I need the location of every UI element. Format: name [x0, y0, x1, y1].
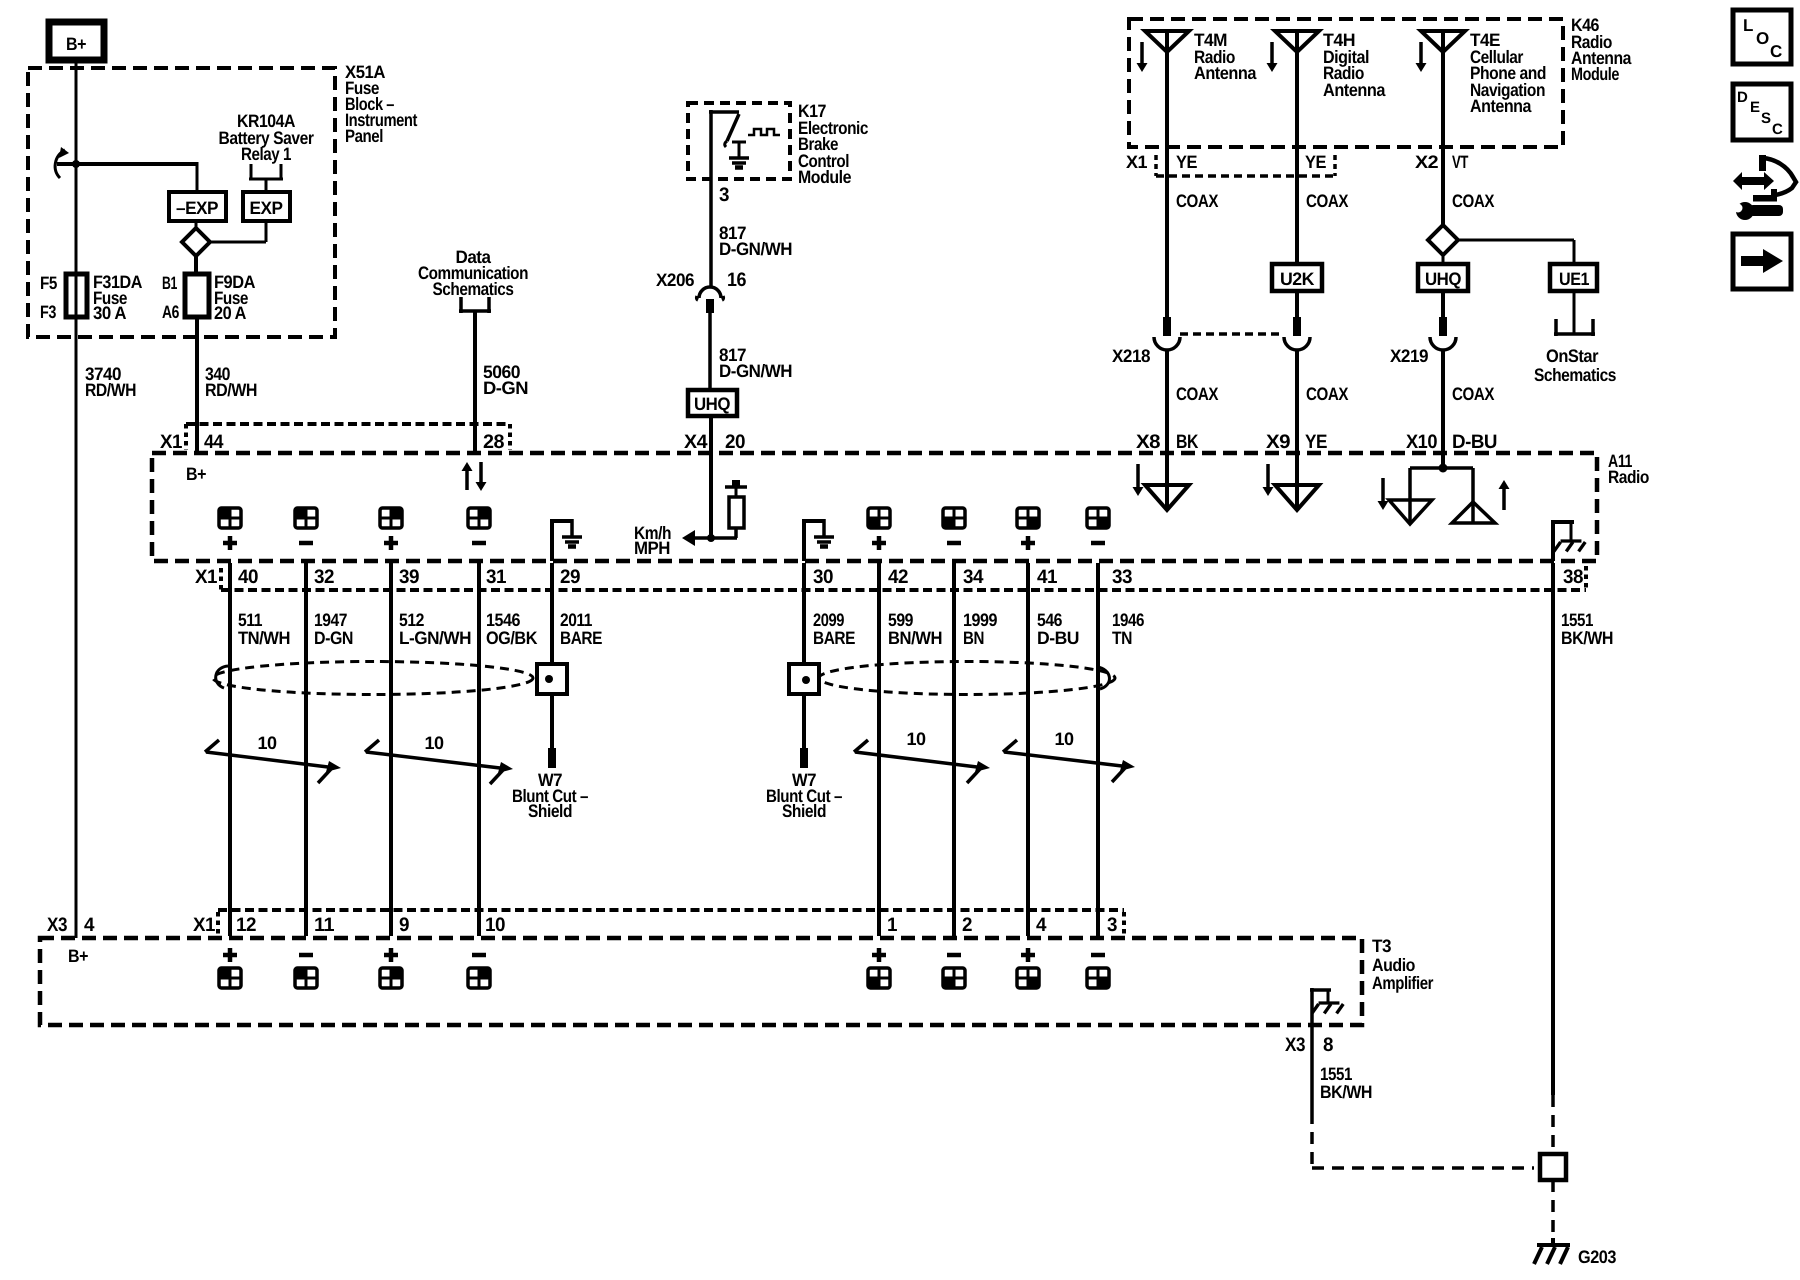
OnStar reference	[1573, 291, 1576, 334]
svg-text:X1: X1	[193, 914, 216, 936]
svg-text:COAX: COAX	[1452, 384, 1494, 404]
svg-text:OG/BK: OG/BK	[486, 628, 537, 648]
speaker symbol amp x=1028	[1017, 968, 1039, 988]
speaker symbol radio pin 1028	[1017, 508, 1039, 528]
svg-text:1999: 1999	[963, 610, 997, 630]
svg-text:COAX: COAX	[1306, 384, 1348, 404]
icon arrow box	[1733, 234, 1791, 289]
ground radio pin 30	[802, 521, 806, 561]
power feed B+ terminal	[49, 22, 104, 60]
svg-text:F5: F5	[40, 273, 57, 293]
svg-text:BK/WH: BK/WH	[1561, 628, 1613, 648]
K17 internal switch	[709, 110, 713, 179]
svg-text:X1: X1	[160, 431, 183, 453]
svg-text:10: 10	[257, 733, 277, 753]
wire branch to relay	[57, 162, 197, 166]
svg-text:D-BU: D-BU	[1452, 431, 1497, 453]
speaker symbol radio pin 1098	[1087, 508, 1109, 528]
twisted pair ellipse right	[819, 662, 1115, 695]
svg-text:44: 44	[204, 431, 224, 453]
svg-text:12: 12	[236, 914, 257, 936]
svg-text:4: 4	[1036, 914, 1047, 936]
amplifier T3 dashed box	[40, 938, 1362, 1025]
wire EXP to diamond	[265, 221, 268, 242]
K17 internal ground	[732, 141, 746, 144]
svg-text:32: 32	[314, 566, 335, 588]
icon LOC box	[1733, 10, 1791, 64]
wire speaker x=230	[228, 563, 232, 936]
wire 1551 radio side	[1551, 563, 1555, 1095]
option UHQ box 2	[1418, 264, 1468, 291]
splice box	[1540, 1154, 1566, 1180]
svg-text:Antenna: Antenna	[1470, 96, 1532, 116]
svg-text:COAX: COAX	[1452, 191, 1494, 211]
connector X219	[1442, 255, 1445, 264]
wire 817 upper	[709, 179, 713, 287]
svg-text:BARE: BARE	[560, 628, 602, 648]
svg-text:VT: VT	[1452, 152, 1468, 172]
svg-text:X1: X1	[1126, 152, 1147, 172]
ground G203	[1551, 1238, 1555, 1245]
svg-text:D: D	[1737, 89, 1748, 106]
svg-text:Audio: Audio	[1372, 955, 1415, 975]
svg-text:X3: X3	[47, 914, 68, 936]
svg-text:C: C	[1772, 121, 1783, 138]
wire speaker x=954	[952, 563, 956, 936]
svg-text:Schematics: Schematics	[433, 279, 514, 299]
svg-text:10: 10	[424, 733, 444, 753]
speaker symbol radio pin 879	[868, 508, 890, 528]
svg-text:X9: X9	[1266, 431, 1291, 453]
svg-text:2: 2	[962, 914, 973, 936]
svg-text:E: E	[1750, 99, 1760, 116]
speaker symbol radio pin 479	[468, 508, 490, 528]
antenna symbol X9	[1295, 453, 1299, 510]
svg-text:TN: TN	[1112, 628, 1132, 648]
svg-text:X10: X10	[1406, 431, 1438, 453]
svg-text:1: 1	[887, 914, 898, 936]
option UE1 box	[1550, 264, 1597, 291]
svg-text:30: 30	[813, 566, 834, 588]
svg-text:X206: X206	[656, 270, 694, 290]
svg-text:T3: T3	[1372, 936, 1391, 956]
fuse block X51A dashed box	[28, 68, 335, 337]
svg-text:28: 28	[483, 431, 505, 453]
hook continuation symbol	[55, 150, 65, 178]
plus minus amp	[223, 953, 237, 958]
shield wire 2011	[550, 563, 554, 664]
svg-text:10: 10	[485, 914, 506, 936]
svg-text:D-GN/WH: D-GN/WH	[719, 239, 792, 259]
svg-text:20 A: 20 A	[214, 303, 246, 323]
wire speaker x=306	[304, 563, 308, 936]
svg-text:2099: 2099	[813, 610, 844, 630]
svg-text:Module: Module	[798, 167, 851, 187]
wire coax to X9	[1295, 350, 1299, 453]
svg-text:512: 512	[399, 610, 424, 630]
wire coax to X10	[1441, 350, 1445, 453]
svg-text:RD/WH: RD/WH	[85, 380, 136, 400]
wire coax T4M	[1165, 31, 1169, 317]
svg-text:Module: Module	[1571, 64, 1619, 84]
wire count arrows 10	[206, 752, 328, 767]
module K17 dashed box	[688, 103, 790, 179]
svg-text:YE: YE	[1305, 152, 1326, 172]
antenna T4H	[1275, 31, 1319, 52]
svg-text:29: 29	[560, 566, 581, 588]
svg-text:11: 11	[314, 914, 335, 936]
svg-text:YE: YE	[1176, 152, 1197, 172]
svg-text:UHQ: UHQ	[694, 394, 730, 414]
svg-text:30 A: 30 A	[93, 303, 126, 323]
icon wrench arrow	[1733, 172, 1774, 190]
svg-text:EXP: EXP	[250, 198, 283, 218]
svg-text:10: 10	[906, 729, 926, 749]
svg-text:1946: 1946	[1112, 610, 1144, 630]
ground radio pin 38	[1551, 522, 1555, 561]
svg-text:Schematics: Schematics	[1534, 365, 1616, 385]
svg-text:L-GN/WH: L-GN/WH	[399, 628, 471, 648]
svg-text:B+: B+	[186, 464, 206, 484]
antenna symbol X8	[1165, 453, 1169, 510]
wire 1551 amp side	[1310, 1025, 1314, 1112]
speaker symbol radio pin 954	[943, 508, 965, 528]
connector X1 amp dotted	[216, 912, 220, 936]
plus minus radio	[223, 541, 237, 546]
speaker symbol amp x=879	[868, 968, 890, 988]
wire 5060 D-GN	[473, 311, 477, 453]
ground radio pin 29	[550, 521, 554, 561]
svg-text:A6: A6	[162, 302, 179, 322]
svg-text:D-GN/WH: D-GN/WH	[719, 361, 792, 381]
shield box W7 left	[537, 664, 567, 694]
speaker symbol amp x=479	[468, 968, 490, 988]
wire coax T4E	[1441, 31, 1445, 226]
svg-text:1947: 1947	[314, 610, 347, 630]
svg-text:X4: X4	[684, 431, 708, 453]
svg-text:8: 8	[1323, 1034, 1334, 1056]
antenna split X10	[1441, 453, 1445, 468]
svg-text:33: 33	[1112, 566, 1133, 588]
svg-text:546: 546	[1037, 610, 1062, 630]
wire 817 lower	[708, 313, 712, 390]
svg-text:COAX: COAX	[1176, 191, 1218, 211]
antenna T4E	[1421, 31, 1465, 52]
shield box W7 right	[789, 664, 819, 694]
svg-text:3: 3	[719, 184, 730, 206]
K17 internal resistor squiggle	[748, 129, 780, 135]
connector X206	[697, 287, 724, 300]
svg-text:Antenna: Antenna	[1323, 80, 1386, 100]
wire B+ vertical 3740	[75, 60, 78, 938]
svg-text:X219: X219	[1390, 346, 1428, 366]
svg-text:O: O	[1756, 29, 1769, 48]
svg-text:3: 3	[1107, 914, 1118, 936]
svg-text:1551: 1551	[1561, 610, 1593, 630]
svg-text:COAX: COAX	[1306, 191, 1348, 211]
svg-text:BN: BN	[963, 628, 984, 648]
coil -EXP box	[169, 192, 226, 221]
svg-text:D-GN: D-GN	[483, 378, 528, 398]
svg-text:Antenna: Antenna	[1194, 63, 1257, 83]
fuse F31DA	[66, 274, 87, 317]
svg-text:Shield: Shield	[528, 801, 572, 821]
data arrows	[465, 470, 469, 490]
wire speaker x=391	[389, 563, 393, 936]
connector X218	[1295, 291, 1299, 317]
speaker symbol amp x=230	[219, 968, 241, 988]
resistor speed	[729, 497, 744, 528]
wire 340 RD/WH	[195, 317, 199, 453]
svg-text:BN/WH: BN/WH	[888, 628, 942, 648]
svg-text:L: L	[1743, 16, 1753, 35]
speaker symbol radio pin 230	[219, 508, 241, 528]
diamond split T4E	[1428, 225, 1458, 255]
svg-text:–EXP: –EXP	[176, 198, 218, 218]
svg-text:511: 511	[238, 610, 262, 630]
amp internal ground	[1310, 988, 1314, 1025]
wire coax to X8	[1165, 350, 1169, 453]
svg-text:RD/WH: RD/WH	[205, 380, 257, 400]
relay bracket	[250, 164, 253, 180]
wire speaker x=1098	[1096, 563, 1100, 936]
svg-text:UHQ: UHQ	[1425, 269, 1461, 289]
junction	[72, 160, 80, 168]
speaker symbol amp x=954	[943, 968, 965, 988]
svg-text:X1: X1	[195, 566, 218, 588]
module K46 dashed box	[1129, 19, 1563, 147]
shield wire 2099	[802, 563, 806, 664]
connector X1 radio top dotted	[184, 424, 188, 450]
svg-text:Shield: Shield	[782, 801, 826, 821]
wire coax T4H	[1295, 31, 1299, 264]
option UHQ box	[688, 390, 737, 416]
icon DESC box	[1733, 84, 1791, 140]
svg-text:B+: B+	[68, 946, 88, 966]
svg-text:X3: X3	[1285, 1034, 1306, 1056]
svg-text:BARE: BARE	[813, 628, 855, 648]
svg-text:10: 10	[1054, 729, 1074, 749]
svg-text:C: C	[1770, 42, 1782, 61]
diamond junction	[182, 228, 210, 256]
svg-text:9: 9	[399, 914, 410, 936]
speaker symbol amp x=306	[295, 968, 317, 988]
wire speaker x=479	[477, 563, 481, 936]
svg-text:599: 599	[888, 610, 913, 630]
coil EXP box	[243, 192, 290, 221]
option U2K box	[1272, 264, 1322, 291]
svg-text:D-GN: D-GN	[314, 628, 353, 648]
svg-text:G203: G203	[1578, 1247, 1616, 1267]
speaker symbol radio pin 391	[380, 508, 402, 528]
svg-text:1551: 1551	[1320, 1064, 1352, 1084]
svg-text:38: 38	[1563, 566, 1584, 588]
svg-text:31: 31	[486, 566, 507, 588]
speaker symbol radio pin 306	[295, 508, 317, 528]
speaker symbol amp x=1098	[1087, 968, 1109, 988]
svg-text:S: S	[1761, 110, 1771, 127]
radio A11 dashed box	[152, 453, 1597, 561]
svg-text:1546: 1546	[486, 610, 520, 630]
svg-text:Radio: Radio	[1608, 467, 1649, 487]
svg-text:D-BU: D-BU	[1037, 628, 1079, 648]
svg-text:42: 42	[888, 566, 909, 588]
connector X1 K46 dashed	[1154, 155, 1158, 176]
svg-text:B1: B1	[162, 273, 177, 293]
svg-text:COAX: COAX	[1176, 384, 1218, 404]
svg-text:OnStar: OnStar	[1546, 346, 1598, 366]
svg-text:B+: B+	[66, 34, 86, 54]
svg-text:F3: F3	[40, 302, 56, 322]
speaker symbol amp x=391	[380, 968, 402, 988]
svg-text:39: 39	[399, 566, 420, 588]
svg-text:41: 41	[1037, 566, 1058, 588]
fuse F9DA	[185, 274, 209, 317]
svg-text:20: 20	[725, 431, 746, 453]
svg-text:U2K: U2K	[1280, 269, 1314, 289]
svg-text:4: 4	[84, 914, 95, 936]
svg-text:X8: X8	[1136, 431, 1161, 453]
svg-text:2011: 2011	[560, 610, 592, 630]
svg-text:34: 34	[963, 566, 984, 588]
antenna T4M	[1145, 31, 1189, 52]
wire speaker x=1028	[1026, 563, 1030, 936]
svg-text:Relay 1: Relay 1	[241, 144, 291, 164]
svg-text:Amplifier: Amplifier	[1372, 973, 1433, 993]
svg-text:MPH: MPH	[634, 538, 670, 558]
wire speaker x=879	[877, 563, 881, 936]
svg-text:YE: YE	[1305, 431, 1327, 453]
svg-text:TN/WH: TN/WH	[238, 628, 290, 648]
svg-text:BK: BK	[1176, 431, 1198, 453]
svg-text:Panel: Panel	[345, 126, 383, 146]
svg-text:16: 16	[727, 269, 747, 291]
twisted pair ellipse left	[213, 662, 533, 695]
svg-text:X2: X2	[1415, 152, 1439, 172]
svg-text:X218: X218	[1112, 346, 1150, 366]
svg-text:BK/WH: BK/WH	[1320, 1082, 1372, 1102]
svg-text:UE1: UE1	[1559, 269, 1589, 289]
connector X1 radio bottom	[219, 568, 223, 590]
svg-text:40: 40	[238, 566, 259, 588]
